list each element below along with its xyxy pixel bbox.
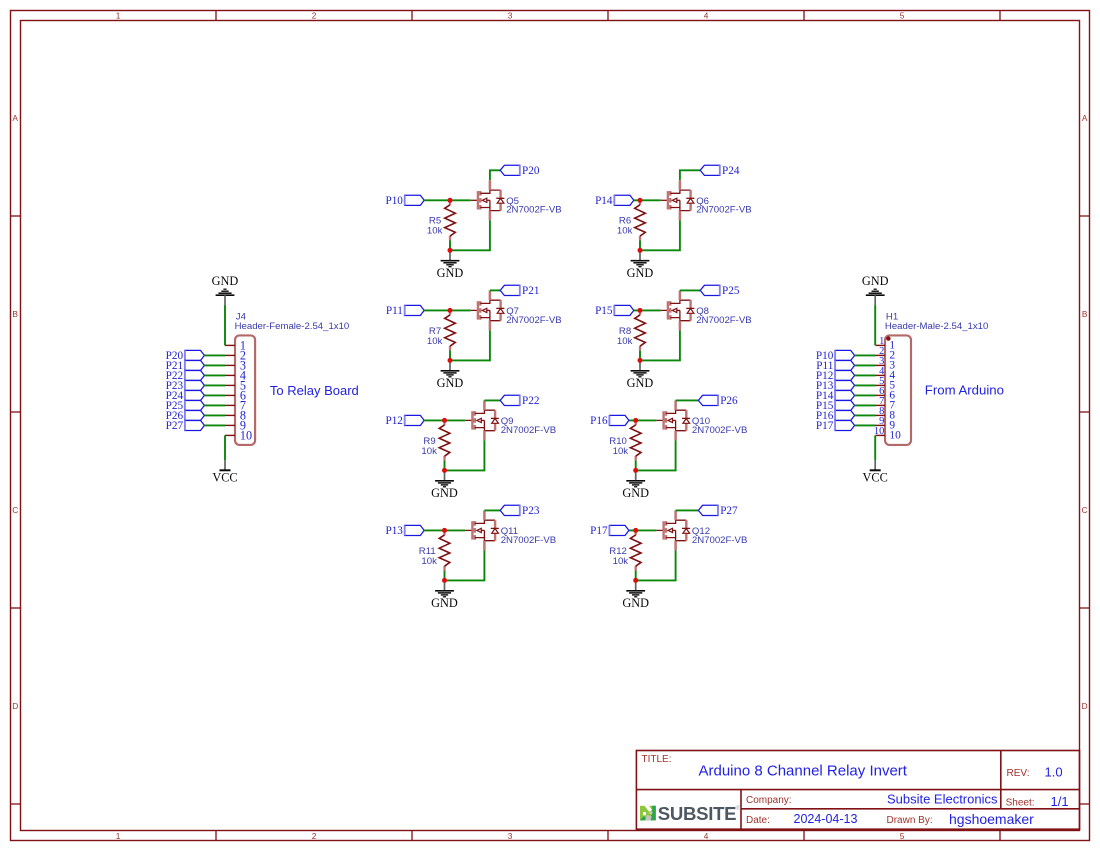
ground (622, 470, 649, 500)
svg-text:Arduino 8 Channel Relay Invert: Arduino 8 Channel Relay Invert (699, 763, 908, 780)
pin 9 of J4 (225, 418, 246, 432)
ground (212, 274, 239, 305)
svg-text:GND: GND (622, 596, 649, 610)
wire (635, 571, 637, 581)
wire (634, 309, 661, 311)
wire (224, 305, 226, 345)
ground (431, 580, 458, 610)
svg-text:P15: P15 (595, 305, 613, 317)
wire (204, 364, 225, 366)
resistor R6 10k (617, 200, 645, 240)
net flag P10 (816, 350, 855, 362)
wire (444, 571, 446, 581)
wire (204, 414, 225, 416)
wire (224, 435, 226, 460)
svg-text:2N7002F-VB: 2N7002F-VB (506, 205, 561, 216)
svg-text:TITLE:: TITLE: (642, 754, 672, 765)
svg-text:P14: P14 (595, 195, 613, 207)
wire (424, 199, 471, 201)
svg-text:P17: P17 (590, 525, 608, 537)
power VCC (863, 460, 888, 484)
net flag P16 (816, 410, 855, 422)
wire (629, 529, 657, 531)
svg-text:P24: P24 (722, 165, 740, 177)
svg-text:Drawn By:: Drawn By: (887, 815, 933, 826)
wire (204, 354, 225, 356)
transistor Q8 2N7002F-VB (661, 290, 752, 330)
wire (634, 199, 661, 201)
svg-text:10: 10 (889, 430, 901, 442)
wire (676, 399, 699, 401)
svg-text:P23: P23 (522, 505, 540, 517)
pin 2 of J4 (225, 348, 246, 362)
svg-text:P22: P22 (522, 395, 539, 407)
power VCC (212, 460, 237, 484)
svg-text:5: 5 (900, 831, 905, 841)
svg-text:REV:: REV: (1007, 768, 1030, 779)
wire (640, 220, 680, 250)
net flag P16 (590, 415, 629, 427)
svg-text:A: A (1082, 113, 1088, 123)
net flag P20 (166, 350, 205, 362)
junction node GND (638, 358, 643, 363)
pin 5 of J4 (225, 378, 246, 392)
svg-text:B: B (12, 309, 18, 319)
wire (676, 509, 699, 511)
net flag P14 (816, 390, 855, 402)
Subsite logo (640, 803, 741, 824)
svg-text:P27: P27 (166, 420, 184, 432)
svg-text:5: 5 (900, 10, 905, 20)
resistor R5 10k (427, 200, 455, 240)
svg-text:From Arduino: From Arduino (925, 383, 1004, 398)
wire (204, 384, 225, 386)
svg-text:P10: P10 (385, 195, 403, 207)
wire (450, 330, 490, 360)
wire (855, 424, 876, 426)
svg-text:2N7002F-VB: 2N7002F-VB (696, 205, 751, 216)
svg-text:2N7002F-VB: 2N7002F-VB (692, 535, 747, 546)
svg-text:P13: P13 (385, 525, 403, 537)
wire (874, 305, 876, 345)
wire (636, 550, 676, 580)
wire (855, 394, 876, 396)
svg-text:2: 2 (312, 10, 317, 20)
svg-text:P11: P11 (386, 305, 403, 317)
svg-text:2: 2 (312, 831, 317, 841)
wire (490, 170, 500, 180)
svg-text:P21: P21 (522, 285, 539, 297)
svg-text:Header-Male-2.54_1x10: Header-Male-2.54_1x10 (885, 321, 988, 332)
svg-text:2N7002F-VB: 2N7002F-VB (692, 425, 747, 436)
pin 2 of H1 (876, 346, 896, 362)
wire (449, 241, 451, 251)
wire (424, 529, 465, 531)
svg-text:10k: 10k (617, 336, 633, 347)
wire (855, 354, 876, 356)
wire (680, 289, 700, 291)
net flag P25 (700, 285, 740, 297)
resistor R9 10k (421, 420, 449, 460)
svg-text:2N7002F-VB: 2N7002F-VB (506, 315, 561, 326)
svg-text:GND: GND (622, 486, 649, 500)
wire (204, 404, 225, 406)
wire (450, 220, 490, 250)
wire (445, 440, 485, 470)
wire (874, 435, 876, 460)
svg-text:1/1: 1/1 (1051, 794, 1069, 809)
pin 7 of J4 (225, 398, 246, 412)
connector J4 Header-Female-2.54_1x10 (235, 312, 350, 445)
svg-text:1: 1 (116, 831, 121, 841)
wire (639, 351, 641, 361)
svg-text:3: 3 (508, 831, 513, 841)
junction node P17 (633, 528, 638, 533)
svg-text:D: D (12, 701, 18, 711)
svg-text:10: 10 (240, 428, 252, 442)
pin 8 of J4 (225, 408, 246, 422)
sheet (1006, 794, 1069, 809)
svg-text:2N7002F-VB: 2N7002F-VB (501, 535, 556, 546)
pin 5 of H1 (876, 376, 896, 392)
company (746, 791, 998, 806)
net flag P23 (166, 380, 205, 392)
transistor Q7 2N7002F-VB (471, 290, 562, 330)
transistor Q5 2N7002F-VB (471, 180, 562, 220)
net flag P22 (500, 395, 539, 407)
svg-text:P16: P16 (590, 415, 608, 427)
net flag P25 (166, 400, 205, 412)
svg-text:Company:: Company: (746, 795, 792, 806)
ground (622, 580, 649, 610)
junction node P14 (638, 198, 643, 203)
junction node P11 (448, 308, 453, 313)
net flag P21 (166, 360, 205, 372)
svg-text:2N7002F-VB: 2N7002F-VB (501, 425, 556, 436)
pin 10 of H1 (874, 426, 901, 442)
resistor R10 10k (609, 420, 641, 460)
ground (437, 250, 464, 280)
svg-text:hgshoemaker: hgshoemaker (949, 811, 1034, 827)
pin 10 of J4 (225, 428, 252, 442)
net flag P26 (166, 410, 205, 422)
wire (855, 384, 876, 386)
svg-text:GND: GND (627, 376, 654, 390)
svg-text:C: C (1082, 505, 1088, 515)
svg-text:P17: P17 (816, 420, 834, 432)
wire (640, 330, 680, 360)
net flag P17 (590, 525, 629, 537)
pin 1 of J4 (225, 338, 246, 352)
date (746, 812, 857, 826)
wire (444, 461, 446, 471)
pin 1 of H1 (876, 336, 896, 352)
svg-text:4: 4 (704, 10, 709, 20)
wire (639, 241, 641, 251)
transistor Q11 2N7002F-VB (465, 510, 556, 550)
pin 3 of H1 (876, 356, 896, 372)
junction node GND (633, 578, 638, 583)
junction node GND (638, 248, 643, 253)
wire (635, 461, 637, 471)
svg-text:VCC: VCC (212, 471, 237, 485)
svg-text:P27: P27 (720, 505, 738, 517)
wire (204, 394, 225, 396)
svg-text:10k: 10k (613, 446, 629, 457)
svg-text:D: D (1082, 701, 1088, 711)
svg-text:A: A (12, 113, 18, 123)
junction node GND (442, 578, 447, 583)
wire (636, 440, 676, 470)
svg-text:GND: GND (431, 596, 458, 610)
wire (680, 170, 700, 180)
net flag P17 (816, 420, 855, 432)
pin 7 of H1 (876, 396, 896, 412)
wire (629, 419, 657, 421)
wire (855, 364, 876, 366)
svg-text:10k: 10k (421, 446, 437, 457)
svg-text:2024-04-13: 2024-04-13 (794, 812, 858, 826)
svg-text:10k: 10k (427, 226, 443, 237)
svg-text:Date:: Date: (746, 815, 770, 826)
svg-text:3: 3 (508, 10, 513, 20)
title text (642, 754, 908, 779)
pin 3 of J4 (225, 358, 246, 372)
wire (445, 550, 485, 580)
net flag P13 (385, 525, 424, 537)
pin 4 of H1 (876, 366, 896, 382)
wire (855, 404, 876, 406)
svg-text:1.0: 1.0 (1045, 764, 1063, 779)
svg-text:2N7002F-VB: 2N7002F-VB (696, 315, 751, 326)
svg-text:B: B (1082, 309, 1088, 319)
net flag P13 (816, 380, 855, 392)
wire (855, 414, 876, 416)
transistor Q12 2N7002F-VB (656, 510, 747, 550)
svg-text:P20: P20 (522, 165, 540, 177)
svg-text:10k: 10k (617, 226, 633, 237)
svg-text:GND: GND (431, 486, 458, 500)
svg-text:VCC: VCC (863, 471, 888, 485)
junction node P12 (442, 418, 447, 423)
connector H1 Header-Male-2.54_1x10 (885, 312, 988, 445)
wire (484, 399, 500, 401)
svg-text:To Relay Board: To Relay Board (270, 383, 359, 398)
transistor Q9 2N7002F-VB (465, 400, 556, 440)
transistor Q10 2N7002F-VB (656, 400, 747, 440)
revision (1007, 764, 1063, 779)
net flag P12 (816, 370, 855, 382)
junction node GND (442, 468, 447, 473)
svg-text:Sheet:: Sheet: (1006, 798, 1035, 809)
pin 6 of H1 (876, 386, 896, 402)
pin 9 of H1 (876, 416, 896, 432)
svg-text:GND: GND (212, 274, 239, 288)
ground (431, 470, 458, 500)
net flag P27 (166, 420, 205, 432)
net flag P10 (385, 195, 424, 207)
resistor R11 10k (419, 530, 450, 570)
wire (484, 509, 500, 511)
svg-text:®: ® (736, 805, 741, 812)
net flag P15 (816, 400, 855, 412)
transistor Q6 2N7002F-VB (661, 180, 752, 220)
junction node GND (633, 468, 638, 473)
svg-text:4: 4 (704, 831, 709, 841)
svg-text:P26: P26 (720, 395, 738, 407)
net flag P21 (500, 285, 539, 297)
net flag P24 (166, 390, 205, 402)
svg-text:10k: 10k (427, 336, 443, 347)
wire (855, 374, 876, 376)
ground (627, 360, 654, 390)
junction node GND (448, 358, 453, 363)
svg-text:SUBSITE: SUBSITE (658, 803, 737, 824)
pin 6 of J4 (225, 388, 246, 402)
svg-text:Subsite Electronics: Subsite Electronics (887, 791, 998, 806)
svg-text:1: 1 (116, 10, 121, 20)
wire (449, 351, 451, 361)
ground (437, 360, 464, 390)
junction node GND (448, 248, 453, 253)
wire (204, 424, 225, 426)
junction node P16 (633, 418, 638, 423)
resistor R12 10k (609, 530, 641, 570)
title block (636, 751, 1079, 830)
wire (204, 374, 225, 376)
svg-text:10k: 10k (613, 556, 629, 567)
wire (490, 289, 500, 291)
svg-text:GND: GND (627, 266, 654, 280)
ground (862, 274, 889, 305)
junction node P13 (442, 528, 447, 533)
drawn by (887, 811, 1035, 827)
ground (627, 250, 654, 280)
resistor R8 10k (617, 310, 645, 350)
svg-text:10k: 10k (421, 556, 437, 567)
net flag P24 (700, 165, 740, 177)
net flag P11 (386, 305, 424, 317)
net flag P12 (385, 415, 424, 427)
wire (424, 419, 465, 421)
junction node P15 (638, 308, 643, 313)
svg-text:C: C (12, 505, 18, 515)
pin 8 of H1 (876, 406, 896, 422)
svg-text:GND: GND (437, 376, 464, 390)
net flag P14 (595, 195, 634, 207)
pin 4 of J4 (225, 368, 246, 382)
net flag P26 (698, 395, 738, 407)
svg-text:P12: P12 (385, 415, 402, 427)
net flag P20 (500, 165, 540, 177)
svg-text:GND: GND (437, 266, 464, 280)
net flag P27 (698, 505, 738, 517)
resistor R7 10k (427, 310, 455, 350)
wire (424, 309, 471, 311)
svg-text:P25: P25 (722, 285, 740, 297)
net flag P11 (816, 360, 854, 372)
svg-text:Header-Female-2.54_1x10: Header-Female-2.54_1x10 (235, 321, 350, 332)
svg-text:GND: GND (862, 274, 889, 288)
net flag P15 (595, 305, 634, 317)
net flag P22 (166, 370, 205, 382)
junction node P10 (448, 198, 453, 203)
net flag P23 (500, 505, 540, 517)
